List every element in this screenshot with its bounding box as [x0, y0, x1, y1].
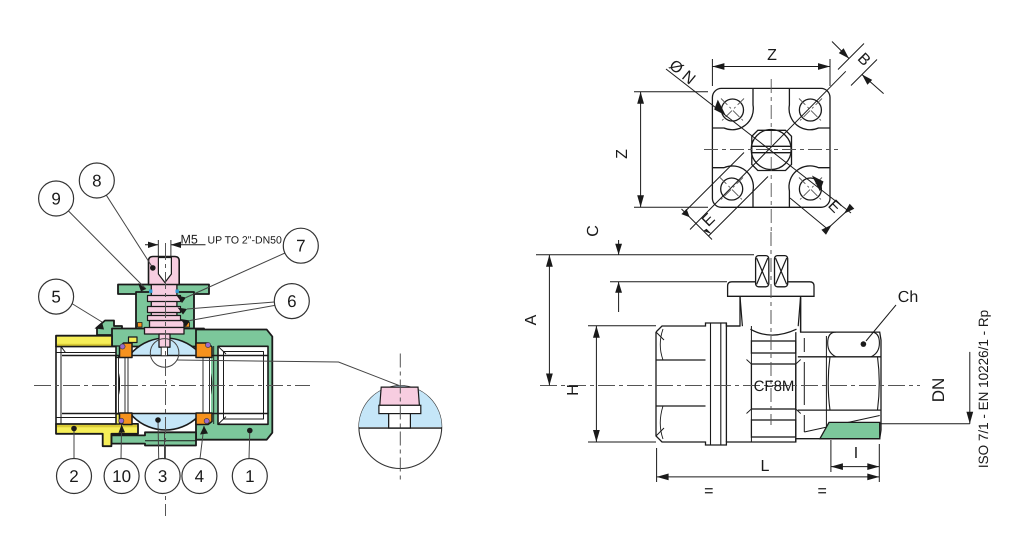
svg-text:5: 5	[51, 288, 60, 307]
svg-text:I: I	[854, 445, 858, 462]
svg-text:C: C	[585, 225, 602, 237]
svg-text:M5: M5	[181, 232, 198, 246]
svg-text:=: =	[818, 483, 827, 500]
svg-text:1: 1	[245, 467, 254, 486]
svg-text:=: =	[704, 483, 713, 500]
svg-text:A: A	[523, 314, 540, 325]
svg-text:7: 7	[296, 237, 305, 256]
svg-text:8: 8	[92, 172, 101, 191]
svg-text:UP TO 2"-DN50: UP TO 2"-DN50	[208, 235, 283, 247]
svg-text:Z: Z	[614, 149, 631, 159]
svg-text:CF8M: CF8M	[754, 378, 795, 395]
svg-text:DN: DN	[929, 378, 948, 403]
svg-text:10: 10	[112, 467, 131, 486]
svg-text:9: 9	[51, 190, 60, 209]
svg-text:4: 4	[195, 467, 204, 486]
svg-text:Z: Z	[767, 47, 777, 64]
svg-text:H: H	[565, 384, 582, 396]
svg-text:3: 3	[158, 467, 167, 486]
svg-text:6: 6	[287, 292, 296, 311]
svg-text:2: 2	[69, 467, 78, 486]
svg-text:L: L	[761, 458, 770, 475]
svg-text:Ch: Ch	[898, 289, 918, 306]
svg-text:ISO 7/1 - EN 10226/1 - Rp: ISO 7/1 - EN 10226/1 - Rp	[976, 310, 991, 468]
